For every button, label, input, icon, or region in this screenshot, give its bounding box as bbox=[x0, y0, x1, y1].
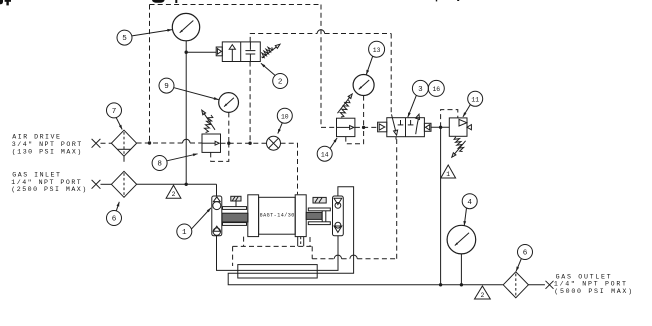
gauge G5 (gas inlet pressure) bbox=[172, 13, 199, 40]
svg-text:5: 5 bbox=[122, 35, 127, 43]
svg-text:1/4" NPT PORT: 1/4" NPT PORT bbox=[554, 281, 628, 288]
svg-text:10: 10 bbox=[281, 113, 289, 120]
pump air port (under right head) bbox=[297, 237, 299, 247]
label 5 bbox=[117, 30, 132, 45]
gauge G9 stem bbox=[228, 112, 230, 143]
svg-text:8: 8 bbox=[157, 161, 162, 169]
title fragment "PT" cropped at top-left bbox=[0, 0, 11, 5]
wire: pilot vent line to valve 3 (hops over gas lines) bbox=[312, 258, 334, 260]
svg-text:1: 1 bbox=[446, 171, 450, 178]
svg-text:2: 2 bbox=[278, 79, 283, 87]
gas outlet X bbox=[546, 281, 554, 289]
svg-text:11: 11 bbox=[471, 96, 479, 103]
label 6 (outlet) bbox=[518, 245, 533, 260]
regulator R8 bbox=[202, 134, 221, 152]
wire: air main filter7 to regulator 8 (hop over gas line) bbox=[137, 142, 183, 144]
gauge G13 stem bbox=[363, 96, 365, 128]
wire: valve2 bottom branch bbox=[249, 62, 251, 144]
gauge G13 bbox=[353, 75, 374, 96]
svg-text:3/4" NPT PORT: 3/4" NPT PORT bbox=[12, 141, 83, 148]
wire: regulator 8 to shuttle 10 bbox=[221, 142, 267, 144]
svg-text:14: 14 bbox=[321, 151, 329, 158]
valve 2 spring/relief bbox=[262, 47, 273, 58]
regulator R14 bbox=[337, 118, 355, 136]
label 9 bbox=[159, 78, 174, 93]
warning triangle 2 (outlet) bbox=[475, 286, 491, 299]
svg-text:1/4" NPT PORT: 1/4" NPT PORT bbox=[11, 179, 82, 186]
gauge G4 stem bbox=[460, 254, 462, 285]
label 13 bbox=[369, 41, 385, 57]
valve 11 pilot loop (dashed) bbox=[441, 110, 458, 128]
wire: valve2 top pilot to valve 3 (hop over air branch) bbox=[250, 34, 317, 42]
valve 2 pilot box bbox=[216, 47, 222, 56]
svg-text:(5000 PSI MAX): (5000 PSI MAX) bbox=[554, 288, 633, 295]
svg-text:(130 PSI MAX): (130 PSI MAX) bbox=[12, 148, 83, 155]
svg-text:2: 2 bbox=[172, 191, 176, 198]
svg-text:13: 13 bbox=[373, 47, 381, 54]
label 8 bbox=[152, 156, 167, 171]
wire: gas riser valve circuit to outlet line bbox=[440, 127, 442, 284]
wire: X to filter 6 bbox=[101, 183, 112, 185]
pump left head bbox=[248, 195, 259, 237]
title fragment blob at top-center bbox=[152, 0, 459, 3]
label 1 bbox=[177, 224, 192, 239]
svg-text:7: 7 bbox=[112, 108, 117, 116]
label 11 bbox=[468, 91, 483, 106]
regulator 14 vent loop bbox=[346, 127, 364, 143]
wire: pump outlet routing bbox=[228, 187, 503, 285]
wire: gas pilot to valve 2 bbox=[186, 51, 216, 53]
valve V2 (pilot switch) bbox=[222, 42, 260, 62]
label 7 bbox=[107, 103, 122, 118]
svg-text:8AGT-14/30: 8AGT-14/30 bbox=[260, 212, 295, 218]
svg-text:2: 2 bbox=[480, 292, 484, 299]
pump rod left bbox=[231, 196, 241, 201]
svg-text:16: 16 bbox=[432, 86, 440, 93]
label 16 bbox=[428, 80, 444, 96]
valve V3 (cycling/vent valve) bbox=[387, 118, 425, 137]
pump base / muffler bbox=[238, 265, 317, 278]
valve V11 (back-pressure/relief) bbox=[449, 118, 467, 136]
shuttle/bleed valve 10 (circle-X) bbox=[267, 136, 281, 150]
wire: gauge 5 stem down to gas inlet line bbox=[185, 41, 187, 185]
wire: shuttle 10 down to pump air port bbox=[281, 143, 298, 194]
wire: gas inlet line to pump bbox=[137, 183, 217, 185]
svg-text:4: 4 bbox=[467, 199, 472, 207]
pump cylinder body bbox=[259, 197, 296, 234]
wire: valve 3 outlet to riser bbox=[431, 126, 449, 128]
label 14 bbox=[317, 146, 332, 161]
air manifold (dashed) bbox=[232, 246, 234, 266]
svg-text:GAS OUTLET: GAS OUTLET bbox=[556, 274, 613, 281]
wire: interstage line (left block bottom to right block bottom) bbox=[217, 236, 339, 271]
label 2 bbox=[273, 74, 288, 89]
pump left check block bbox=[212, 196, 222, 236]
svg-text:9: 9 bbox=[164, 83, 169, 91]
pump right head bbox=[295, 195, 306, 237]
label 6 bbox=[107, 211, 122, 226]
filter F6 (gas inlet) bbox=[111, 171, 136, 197]
wire: reg 14 to valve 3 pilot bbox=[355, 126, 378, 128]
valve 3 left pilot box bbox=[378, 122, 387, 132]
svg-text:6: 6 bbox=[523, 250, 528, 258]
air drive port X bbox=[92, 139, 101, 148]
label 4 bbox=[462, 194, 477, 209]
warning triangle 1 bbox=[441, 165, 456, 178]
svg-text:3: 3 bbox=[418, 86, 423, 94]
pump right check block bbox=[333, 196, 344, 236]
label 10 bbox=[277, 108, 292, 123]
filter F6b (gas outlet) bbox=[503, 272, 528, 298]
wire: air branch boundary left edge bbox=[149, 5, 151, 143]
regulator 8 vent loop bbox=[211, 143, 229, 161]
warning triangle 2 (inlet) bbox=[166, 185, 181, 198]
svg-text:AIR DRIVE: AIR DRIVE bbox=[12, 134, 61, 141]
gas inlet X bbox=[92, 180, 101, 189]
wire: air branch boundary top edge bbox=[150, 4, 322, 6]
gauge G4 (outlet pressure) bbox=[447, 225, 476, 254]
gauge G9 bbox=[219, 93, 239, 113]
wire: air branch right drop to regulator 14 bbox=[320, 5, 322, 128]
svg-text:1: 1 bbox=[182, 229, 187, 237]
svg-text:GAS INLET: GAS INLET bbox=[12, 171, 61, 178]
label 3 bbox=[412, 80, 428, 96]
valve 3 right pilot box bbox=[424, 123, 431, 131]
wire: filter to outlet X bbox=[528, 284, 545, 286]
filter F7 (air drive) bbox=[111, 130, 136, 156]
pump rod right bbox=[313, 197, 326, 203]
svg-text:(2500 PSI MAX): (2500 PSI MAX) bbox=[11, 186, 87, 193]
svg-text:6: 6 bbox=[112, 216, 117, 224]
wire: X to filter 7 bbox=[101, 142, 112, 144]
